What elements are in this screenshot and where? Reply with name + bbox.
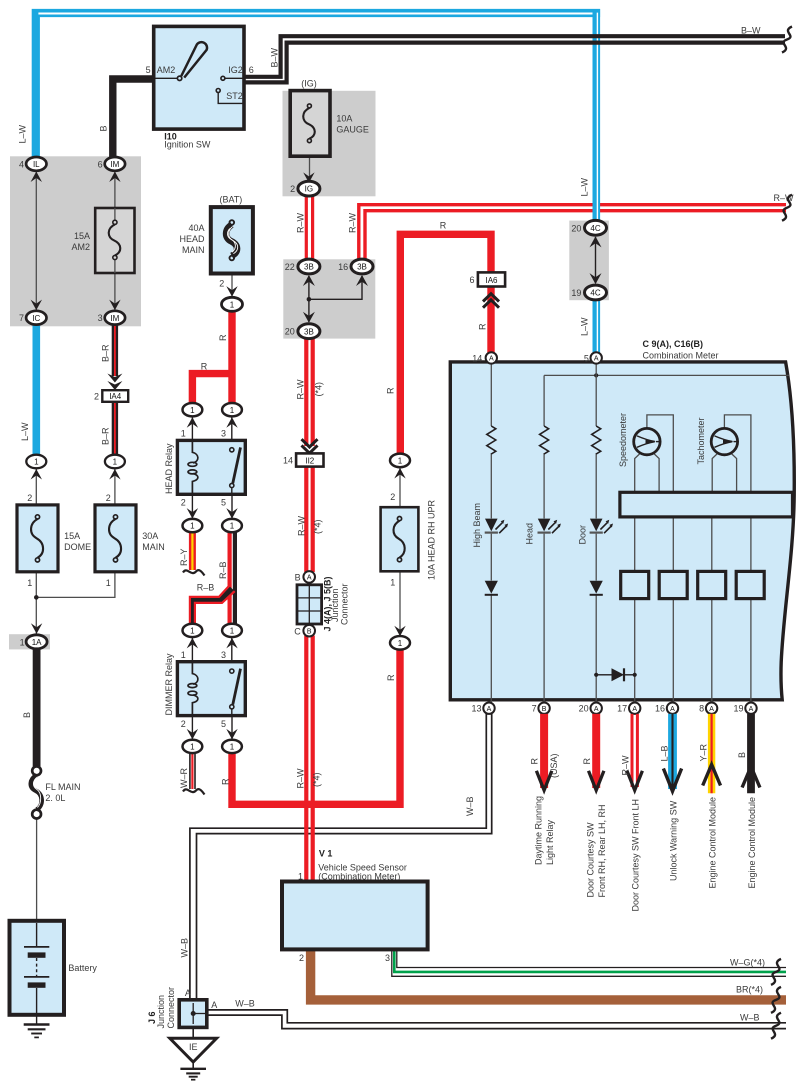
svg-text:R: R (386, 674, 396, 681)
wire W-B from meter pin13 to J6 (line 1) (190, 714, 486, 1001)
svg-text:6: 6 (249, 65, 254, 75)
svg-text:IG2: IG2 (228, 65, 243, 75)
IE ground triangle (170, 1027, 217, 1062)
LED high beam (485, 519, 508, 534)
meter bottom pin 8 A (699, 703, 717, 714)
svg-text:Door: Door (578, 525, 588, 545)
svg-text:IM: IM (110, 160, 119, 169)
thin wire 6 IM to fuse AM2 to 3 IM (114, 170, 116, 312)
arrow down above IC (31, 300, 42, 311)
svg-text:A: A (487, 706, 492, 713)
svg-text:(BAT): (BAT) (219, 195, 242, 205)
svg-text:B: B (295, 573, 301, 583)
svg-text:ST2: ST2 (226, 91, 243, 101)
svg-text:IG: IG (305, 185, 313, 194)
svg-text:19: 19 (571, 288, 581, 298)
DIMMER relay coil (188, 662, 198, 716)
svg-text:II2: II2 (305, 456, 314, 465)
svg-text:B: B (307, 628, 312, 635)
svg-text:1: 1 (181, 650, 186, 660)
fuse 30A MAIN (95, 505, 165, 572)
svg-text:1: 1 (20, 637, 25, 647)
svg-text:Head: Head (525, 523, 535, 545)
oval 1 above MAIN (105, 455, 125, 469)
wire R-Y from HEAD relay pin2 to break (183, 532, 205, 576)
wire W-B from meter pin13 to J6 (line 2) (197, 714, 492, 1001)
svg-text:3B: 3B (304, 263, 314, 272)
svg-text:R–W: R–W (296, 212, 306, 233)
break symbol W-G (771, 959, 781, 985)
svg-text:W–B: W–B (740, 1013, 760, 1023)
arrow up under 20 4C (590, 236, 602, 247)
thin wires 3B block links (307, 276, 362, 322)
svg-text:2: 2 (181, 719, 186, 729)
svg-text:15A: 15A (74, 231, 90, 241)
wire L-W cyan from 7 IC down to fuse DOME feed oval (32, 324, 40, 456)
svg-text:R: R (386, 387, 396, 394)
arrow down above 19 4C (590, 273, 602, 284)
thin wire MAIN fuse out to junction (36, 572, 115, 598)
svg-text:1: 1 (390, 578, 395, 588)
meter bottom pin 7 B (532, 703, 550, 714)
wire R-W from pin17 with down arrow (627, 714, 642, 790)
svg-text:AM2: AM2 (71, 242, 90, 252)
svg-text:R–W: R–W (296, 768, 306, 789)
svg-text:W–R: W–R (179, 768, 189, 789)
svg-text:20: 20 (571, 223, 581, 233)
wire R-B branch to DIMMER pin1 (190, 586, 235, 625)
double chevron arrow down above II2 (302, 439, 318, 453)
arrow up under IL (31, 172, 42, 183)
arrows down above DIMMER bottom ovals (187, 729, 238, 740)
svg-text:B–W: B–W (270, 47, 280, 67)
wire R from BAT fuse oval down to HEAD relay pins with branch (192, 311, 235, 405)
svg-text:W–G(*4): W–G(*4) (730, 958, 765, 968)
arrow up under oval 1 DOME (31, 469, 42, 480)
meter top pin 5 A (584, 352, 602, 363)
svg-text:7: 7 (19, 313, 24, 323)
junction connector J4/J5 oval A (295, 571, 315, 583)
diode horizontal bottom (594, 668, 637, 681)
arrow down above BAT oval (226, 286, 237, 297)
connector oval 2 IG (290, 181, 320, 196)
svg-text:A: A (211, 1000, 217, 1010)
svg-text:6: 6 (469, 275, 474, 285)
ignition switch labels (146, 65, 254, 149)
svg-text:Battery: Battery (68, 963, 97, 973)
svg-text:MAIN: MAIN (142, 542, 165, 552)
wire R from DIMMER pin5 down, right and up to 10A HEAD RH UPR fuse oval (232, 648, 400, 804)
svg-text:R: R (530, 758, 540, 765)
svg-text:1: 1 (113, 458, 118, 467)
svg-text:IE: IE (189, 1042, 198, 1052)
meter inner rail (544, 373, 789, 377)
thin wire oval to 10A HEAD RH UPR fuse top (399, 467, 401, 508)
thin wire MAIN fuse feed (114, 467, 116, 505)
svg-text:Light Relay: Light Relay (545, 819, 555, 865)
svg-text:Ignition SW: Ignition SW (164, 140, 211, 150)
svg-text:L–W: L–W (20, 422, 30, 441)
VSS labels (298, 848, 407, 881)
svg-text:FL MAIN: FL MAIN (45, 782, 80, 792)
wire Y-R from pin8 with up arrow (703, 714, 721, 793)
thin wire DOME fuse out to junction and 1A (35, 572, 37, 641)
junction connector J4/J5 grid (297, 585, 322, 624)
svg-text:3: 3 (221, 650, 226, 660)
svg-text:C: C (294, 626, 301, 636)
DIMMER relay pin ovals bottom (183, 740, 242, 753)
connector IA4 (94, 390, 128, 402)
svg-text:GAUGE: GAUGE (336, 125, 369, 135)
connector oval 3 IM (98, 311, 126, 325)
svg-text:22: 22 (285, 262, 295, 272)
svg-text:B: B (542, 706, 547, 713)
svg-text:20: 20 (579, 704, 589, 714)
svg-text:A: A (594, 356, 599, 363)
svg-text:1: 1 (27, 578, 32, 588)
svg-text:1: 1 (230, 627, 235, 636)
wire R from pin7 with down arrow (536, 714, 551, 790)
svg-text:R: R (477, 323, 487, 330)
oval 1 left of DOME (26, 455, 46, 469)
fuse 15A DOME (17, 505, 91, 572)
gray band 1A connector (9, 634, 50, 649)
wire B black from 1A oval to fusible link (33, 648, 41, 767)
combination meter box C9(A) C16(B) (450, 362, 794, 700)
diode high beam chain (485, 581, 498, 595)
thin wire GAUGE fuse to 2 IG (309, 147, 311, 183)
HEAD relay pin ovals bottom (183, 519, 242, 532)
thin wire IL to IC (35, 170, 37, 312)
svg-text:5: 5 (221, 498, 226, 508)
svg-text:B–R: B–R (101, 427, 111, 445)
svg-text:L–W: L–W (580, 177, 590, 196)
svg-text:MAIN: MAIN (182, 245, 205, 255)
ignition switch box I10 (154, 26, 244, 129)
svg-text:(USA): (USA) (549, 753, 559, 778)
gray box 3B connector area (283, 259, 375, 338)
battery (10, 921, 98, 1015)
wire B-R from IA4 to fuse MAIN feed oval (112, 402, 118, 456)
fuse 10A HEAD RH UPR (381, 507, 419, 571)
svg-text:2: 2 (27, 493, 32, 503)
svg-text:Door Courtesy SW: Door Courtesy SW (586, 822, 596, 898)
svg-text:1: 1 (190, 743, 195, 752)
wire L-W cyan right vertical drop to 20 4C (596, 9, 597, 222)
thin leads into HEAD relay (192, 416, 231, 448)
wire L-W cyan from top-left corner, horizontal top run and left drop (36, 13, 600, 158)
svg-text:2. 0L: 2. 0L (45, 793, 65, 803)
arrows up under DIMMER top ovals (187, 638, 238, 649)
svg-text:3: 3 (98, 313, 103, 323)
svg-text:A: A (185, 988, 191, 998)
resistor head (540, 426, 549, 454)
arrow up under oval 1 MAIN (109, 469, 120, 480)
wire R from pin20 with down arrow (589, 714, 604, 790)
VSS box V1 (282, 882, 428, 950)
3B connector ovals (285, 259, 320, 274)
HEAD relay coil (188, 440, 198, 494)
svg-text:(*4): (*4) (313, 519, 323, 534)
svg-text:(IG): (IG) (301, 79, 317, 89)
meter square 3 (698, 571, 726, 598)
svg-text:17: 17 (617, 704, 627, 714)
svg-text:16: 16 (655, 704, 665, 714)
wire R-W pair from junction connector B to VSS pin1 (306, 636, 312, 882)
svg-text:R–W: R–W (348, 212, 358, 233)
meter bottom pin 13 A (471, 703, 494, 714)
junction connector J4/J5 oval B (294, 625, 315, 637)
connector oval 7 IC (19, 311, 47, 325)
double chevron arrow down above IA4 (107, 374, 122, 391)
svg-text:A: A (594, 706, 599, 713)
svg-text:2: 2 (299, 953, 304, 963)
resistor door (592, 426, 601, 454)
svg-text:1: 1 (398, 457, 403, 466)
meter square 4 (736, 571, 764, 598)
svg-text:1: 1 (190, 406, 195, 415)
svg-text:1: 1 (398, 639, 403, 648)
svg-text:20: 20 (285, 327, 295, 337)
svg-text:1: 1 (106, 578, 111, 588)
ground under battery (24, 1015, 50, 1038)
wire W-G from VSS pin3 to right edge (392, 949, 786, 976)
svg-text:Door Courtesy SW Front LH: Door Courtesy SW Front LH (631, 799, 641, 912)
svg-text:L–W: L–W (580, 317, 590, 336)
thin wire 10A HEAD RH UPR fuse to oval below (399, 571, 401, 637)
svg-text:(*4): (*4) (312, 772, 322, 787)
meter bottom pin 20 A (579, 703, 602, 714)
thin wire BAT fuse to oval (231, 274, 233, 299)
arrow up under IM (109, 172, 120, 183)
wire W-B from J6 to right edge (line 2) (207, 1015, 786, 1029)
connector oval 4 IL (19, 157, 47, 171)
svg-text:B: B (22, 712, 32, 718)
svg-text:1: 1 (230, 300, 235, 309)
svg-text:A: A (307, 575, 312, 582)
svg-text:AM2: AM2 (157, 65, 176, 75)
svg-text:L–W: L–W (18, 124, 28, 143)
svg-text:V 1: V 1 (319, 848, 333, 858)
svg-text:1: 1 (230, 406, 235, 415)
svg-text:3: 3 (385, 953, 390, 963)
svg-text:1: 1 (190, 627, 195, 636)
svg-text:3B: 3B (304, 327, 314, 336)
meter bottom pin 16 A (655, 703, 678, 714)
svg-text:2: 2 (106, 493, 111, 503)
fusible link FL MAIN 2.0L (31, 766, 81, 818)
svg-text:A: A (489, 356, 494, 363)
svg-text:IL: IL (33, 160, 40, 169)
svg-text:Junction: Junction (156, 995, 166, 1029)
thin leads out of DIMMER relay (192, 716, 232, 741)
svg-text:5: 5 (146, 65, 151, 75)
svg-text:16: 16 (338, 262, 348, 272)
LED door (590, 519, 613, 534)
thin wire 4C block link (595, 237, 597, 283)
LED head (538, 519, 561, 534)
gray box 4C connector area (569, 221, 609, 301)
svg-text:Daytime Running: Daytime Running (534, 796, 544, 865)
break symbol W-B (771, 1013, 781, 1039)
meter square 1 (621, 571, 649, 598)
ground symbol under IE (180, 1062, 206, 1080)
arrow down above IM3 (109, 300, 120, 311)
resistor high beam (487, 426, 496, 454)
svg-text:4C: 4C (590, 289, 600, 298)
oval 1 BAT fuse out (222, 297, 243, 311)
svg-text:C 9(A), C16(B): C 9(A), C16(B) (643, 339, 704, 349)
svg-text:1: 1 (181, 429, 186, 439)
svg-text:W–B: W–B (235, 999, 255, 1009)
thin leads out of HEAD relay (192, 494, 232, 520)
svg-text:40A: 40A (188, 223, 204, 233)
svg-text:7: 7 (532, 704, 537, 714)
wire R-W pair from 20 3B to II2 (306, 337, 312, 446)
svg-text:B: B (99, 125, 109, 131)
speedometer (634, 415, 674, 492)
svg-text:BR(*4): BR(*4) (736, 985, 763, 995)
tachometer (711, 415, 751, 492)
DIMMER relay box (177, 662, 245, 716)
svg-text:Connector: Connector (339, 583, 349, 625)
svg-text:IC: IC (32, 314, 40, 323)
svg-text:19: 19 (733, 704, 743, 714)
svg-text:W–B: W–B (179, 938, 189, 958)
gray box GAUGE fuse area (283, 91, 376, 197)
svg-text:B–W: B–W (741, 26, 761, 36)
meter chain lines (491, 364, 751, 703)
arrow down above 20 3B (303, 312, 315, 323)
svg-text:5: 5 (584, 354, 589, 364)
svg-text:Engine Control Module: Engine Control Module (708, 797, 718, 889)
ignition switch internals (154, 42, 244, 103)
svg-text:B–R: B–R (101, 344, 111, 362)
wire L-W cyan from 19 4C to meter pin5 (596, 299, 597, 354)
svg-text:A: A (632, 706, 637, 713)
svg-text:2: 2 (181, 498, 186, 508)
svg-text:R–W: R–W (297, 515, 307, 536)
svg-text:1: 1 (190, 522, 195, 531)
svg-text:1: 1 (34, 458, 39, 467)
label Door Courtesy SW Front RH Rear LH RH (586, 804, 608, 897)
meter bottom pin 17 A (617, 703, 640, 714)
wire R from IA6 down to meter pin14 (487, 287, 494, 354)
meter top pin 14 A (472, 352, 497, 363)
svg-text:Y–R: Y–R (698, 743, 708, 761)
4C connector ovals (571, 220, 606, 235)
svg-text:3: 3 (221, 429, 226, 439)
thin wire fusible link to battery (36, 819, 38, 923)
svg-text:R–W: R–W (620, 755, 630, 776)
svg-text:15A: 15A (64, 531, 80, 541)
svg-text:Connector: Connector (166, 987, 176, 1029)
thin wire DOME fuse feed (35, 467, 37, 505)
svg-text:(*4): (*4) (314, 382, 324, 397)
oval 1 below 10A HEAD RH UPR (390, 636, 410, 650)
svg-text:HEAD: HEAD (179, 234, 205, 244)
thin leads into DIMMER relay (192, 637, 231, 670)
wire B from pin19 with up arrow (742, 714, 760, 793)
J6 junction connector box (179, 1000, 207, 1028)
svg-text:R–Y: R–Y (179, 548, 189, 566)
meter bottom pin 19 A (733, 703, 756, 714)
svg-text:2: 2 (219, 279, 224, 289)
arrow up under oval (394, 468, 405, 479)
connector oval 6 IM (98, 157, 126, 171)
wire W-B from J6 to right edge (line 1) (207, 1010, 786, 1023)
arrows up under HEAD relay top ovals (187, 417, 238, 428)
diode door chain (590, 581, 603, 595)
arrow up under 16 3B (356, 275, 368, 286)
arrow up under 22 3B (303, 275, 315, 286)
svg-text:1: 1 (230, 743, 235, 752)
svg-text:DOME: DOME (64, 542, 91, 552)
svg-text:5: 5 (221, 719, 226, 729)
connector IA6 (469, 272, 505, 286)
wire B-R from 3 IM to IA4 (112, 324, 118, 377)
svg-text:IM: IM (110, 314, 119, 323)
break symbol B-W (782, 27, 792, 53)
arrow down above lower oval (394, 626, 405, 637)
svg-text:R: R (218, 334, 228, 341)
DIMMER relay switch (230, 669, 241, 716)
svg-text:13: 13 (471, 704, 481, 714)
svg-text:Unlock Warning SW: Unlock Warning SW (669, 800, 679, 881)
arrow down above 1A (31, 623, 42, 634)
svg-text:R–W: R–W (296, 379, 306, 400)
wire L-B from pin16 with down arrow (663, 714, 681, 791)
svg-text:1A: 1A (32, 638, 42, 647)
svg-text:DIMMER Relay: DIMMER Relay (164, 653, 174, 716)
svg-text:Engine Control Module: Engine Control Module (747, 797, 757, 889)
wire R from 10A HEAD RH UPR oval up, right, down to IA6 (400, 234, 491, 455)
svg-text:R: R (582, 758, 592, 765)
svg-text:14: 14 (472, 354, 482, 364)
HEAD relay box (177, 440, 245, 494)
svg-text:L–B: L–B (659, 745, 669, 761)
double chevron arrow up below IA6 (483, 294, 499, 308)
svg-text:8: 8 (699, 704, 704, 714)
DIMMER relay pin ovals top (183, 624, 242, 637)
svg-text:4C: 4C (590, 224, 600, 233)
arrow down above 2 IG (303, 172, 314, 183)
label Junction Connector vertical at J6 (156, 987, 176, 1029)
svg-text:3B: 3B (357, 263, 367, 272)
svg-text:10A HEAD RH UPR: 10A HEAD RH UPR (427, 499, 437, 580)
svg-text:R: R (201, 362, 208, 372)
wire B black from ignition AM2 to 6 IM (113, 79, 154, 158)
svg-text:A: A (670, 706, 675, 713)
connector II2 (283, 453, 324, 466)
svg-text:14: 14 (283, 456, 293, 466)
svg-text:High Beam: High Beam (472, 503, 482, 548)
svg-text:2: 2 (290, 184, 295, 194)
oval 1 above 10A HEAD RH UPR (390, 454, 410, 468)
svg-text:R: R (221, 778, 231, 785)
meter bar rectangle (620, 492, 793, 517)
fuse 40A HEAD MAIN fusible link (179, 207, 252, 273)
arrows down above HEAD relay bottom ovals (187, 508, 238, 518)
break symbol BR (771, 987, 781, 1013)
wire R-W pair from II2 to junction connector A (306, 467, 312, 572)
junction dot DOME/MAIN (34, 595, 39, 600)
svg-text:6: 6 (98, 159, 103, 169)
HEAD relay switch (230, 447, 241, 494)
svg-text:10A: 10A (336, 114, 352, 124)
gray box fuse block AM2 area (10, 156, 141, 326)
svg-text:Speedometer: Speedometer (618, 413, 628, 467)
